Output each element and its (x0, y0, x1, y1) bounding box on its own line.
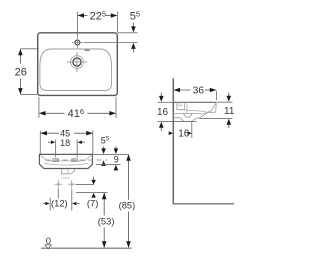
dimension 26 (left) (15, 49, 39, 95)
floor line (side view) (173, 203, 234, 205)
dimension 36 (side view top) (174, 86, 217, 101)
basin lower diagonal (side view) (201, 111, 211, 115)
overflow slot mark (top view) (85, 49, 90, 51)
svg-text:36: 36 (193, 86, 205, 97)
trap outline (side view) (173, 118, 196, 122)
dimension 22.5 (top) (77, 9, 117, 36)
wall line (172, 78, 174, 204)
basin top surface (side view) (173, 101, 216, 103)
faucet deck tab (side view) (177, 102, 185, 109)
drain with crosshairs (top view) (67, 52, 87, 72)
zero level symbol (45, 236, 51, 249)
inner bowl rim line (side view) (185, 110, 206, 112)
svg-text:11: 11 (224, 106, 235, 117)
basin underside profile (side view) (196, 112, 215, 118)
dimension 16 (side view left) (157, 93, 196, 132)
svg-text:(7): (7) (87, 197, 98, 208)
dimension (7) vertical (front view) (87, 177, 98, 209)
dimension 5.5 (top view, right) (84, 9, 141, 53)
trap cup arc (side view) (184, 113, 192, 117)
floor reference line (front view) (41, 247, 132, 249)
dimension (53) vertical (98, 193, 115, 248)
washbasin outer rim (top view) (38, 33, 118, 96)
dimension 45 (front view) (40, 129, 93, 154)
basin front face (side view) (215, 103, 218, 113)
faucet tab inner notch (side view) (179, 103, 181, 106)
dimension 11 (side view right) (200, 93, 235, 129)
basin front chamfer diagonal (side view) (211, 103, 216, 112)
right tap hole knockout (front view) (72, 159, 78, 162)
washbasin inner basin outline (top view) (40, 49, 112, 91)
dimension 16 (side view bottom) (169, 122, 192, 140)
svg-text:(85): (85) (119, 200, 136, 211)
svg-text:416: 416 (68, 107, 84, 121)
svg-text:16: 16 (157, 107, 169, 118)
bowl bottom line (front view) (44, 163, 87, 165)
svg-text:225: 225 (90, 9, 106, 23)
dimension (85) vertical (119, 154, 136, 247)
inner rear rim line (front view) (48, 160, 85, 162)
dimension 5.5 (front view) (93, 135, 128, 166)
svg-text:16: 16 (178, 128, 190, 139)
drain flange (front view) (61, 169, 74, 174)
svg-text:9: 9 (114, 154, 119, 164)
svg-text:55: 55 (130, 9, 140, 23)
svg-text:18: 18 (60, 138, 70, 148)
drain marker line (side view) (186, 104, 188, 114)
inner bowl right chamfer (front view) (84, 155, 91, 161)
outlet level line (front view) (76, 184, 94, 186)
bowl bottom line (side view) (173, 112, 201, 114)
inner bowl left chamfer (front view) (41, 155, 48, 161)
right supply cross (68, 180, 76, 188)
left tap hole knockout (front view) (53, 159, 59, 162)
dimension (12) (front view bottom) (43, 189, 80, 211)
svg-text:55: 55 (101, 135, 110, 145)
faucet hole (top view) (72, 37, 83, 48)
tap hole center dashed line (front view) (46, 159, 108, 161)
svg-text:(53): (53) (98, 215, 115, 226)
drain flange inner line (67, 169, 69, 174)
svg-text:26: 26 (15, 67, 27, 79)
lower level line (front view) (76, 192, 108, 194)
dimension 9 (front view right) (96, 147, 121, 171)
basin outline (front view) (39, 154, 92, 168)
left supply cross (54, 180, 62, 188)
dimension 41.6 (bottom of top view) (39, 97, 116, 120)
dimension 18 (front view) (48, 138, 85, 158)
pipe line below flange (61, 177, 70, 179)
svg-text:(12): (12) (51, 197, 68, 208)
